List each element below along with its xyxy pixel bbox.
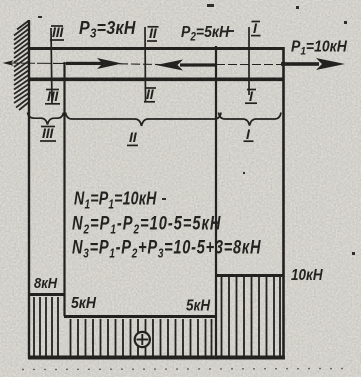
hatch of 10kH box [222, 277, 281, 356]
N-diagram right box top edge (10kH) [216, 274, 284, 277]
value label 5kH (right) [186, 298, 211, 315]
equation line 3: N3=P1-P2+P3=10-5+3=8kH [72, 237, 261, 261]
axis line middle segment [119, 63, 160, 66]
section label I below bar [245, 88, 257, 104]
section line I [248, 27, 250, 95]
value label 5kH (left) [71, 294, 97, 312]
wall hatching [14, 21, 29, 111]
section label II above bar [147, 25, 159, 41]
hatch of 8kH box [34, 297, 58, 356]
bar top line [28, 47, 284, 50]
N-diagram middle box top edge (5kH) [64, 315, 217, 318]
section label I above bar [251, 20, 261, 36]
scan speckles and edge artifacts [38, 4, 355, 255]
value label 10kH [291, 267, 323, 284]
force label P1=10kH [291, 39, 347, 58]
wall edge / left edge line [28, 20, 30, 358]
brace segment III [28, 113, 64, 125]
brace label I [244, 126, 254, 142]
bottom scan dotted line [22, 369, 352, 370]
plus sign symbol in circle [135, 332, 150, 347]
segment boundary line at P3 (x=64) [63, 62, 65, 316]
brace label II [127, 129, 138, 145]
brace segment I [219, 113, 282, 126]
N-diagram baseline [28, 356, 285, 360]
bar bottom line [28, 78, 284, 82]
force label P3=3kH [79, 17, 136, 41]
hatch of 5kH box [71, 319, 212, 356]
axis line with reaction arrow (left) [3, 60, 67, 66]
brace segment II [66, 113, 222, 127]
force label P2=5kH [181, 23, 230, 44]
equation line 2: N2=P1-P2=10-5=5kH [72, 213, 221, 237]
value label 8kH [34, 274, 58, 291]
section label II below bar [144, 86, 156, 102]
section line III [51, 28, 52, 104]
section label III below bar [45, 88, 60, 104]
force arrow P1 [281, 58, 345, 70]
section label III above bar [50, 24, 64, 40]
axis line right segment [216, 64, 283, 66]
equation line 1: N1=P1=10kH [74, 189, 157, 212]
bar right end / right edge line [282, 47, 285, 358]
force arrow P3 [66, 58, 122, 69]
force arrow P2 [156, 60, 216, 71]
section line II [144, 27, 147, 102]
brace label III [40, 125, 56, 141]
segment boundary line at P2 (x=216) [215, 46, 217, 358]
N-diagram left box top edge (8kH) [29, 293, 65, 296]
